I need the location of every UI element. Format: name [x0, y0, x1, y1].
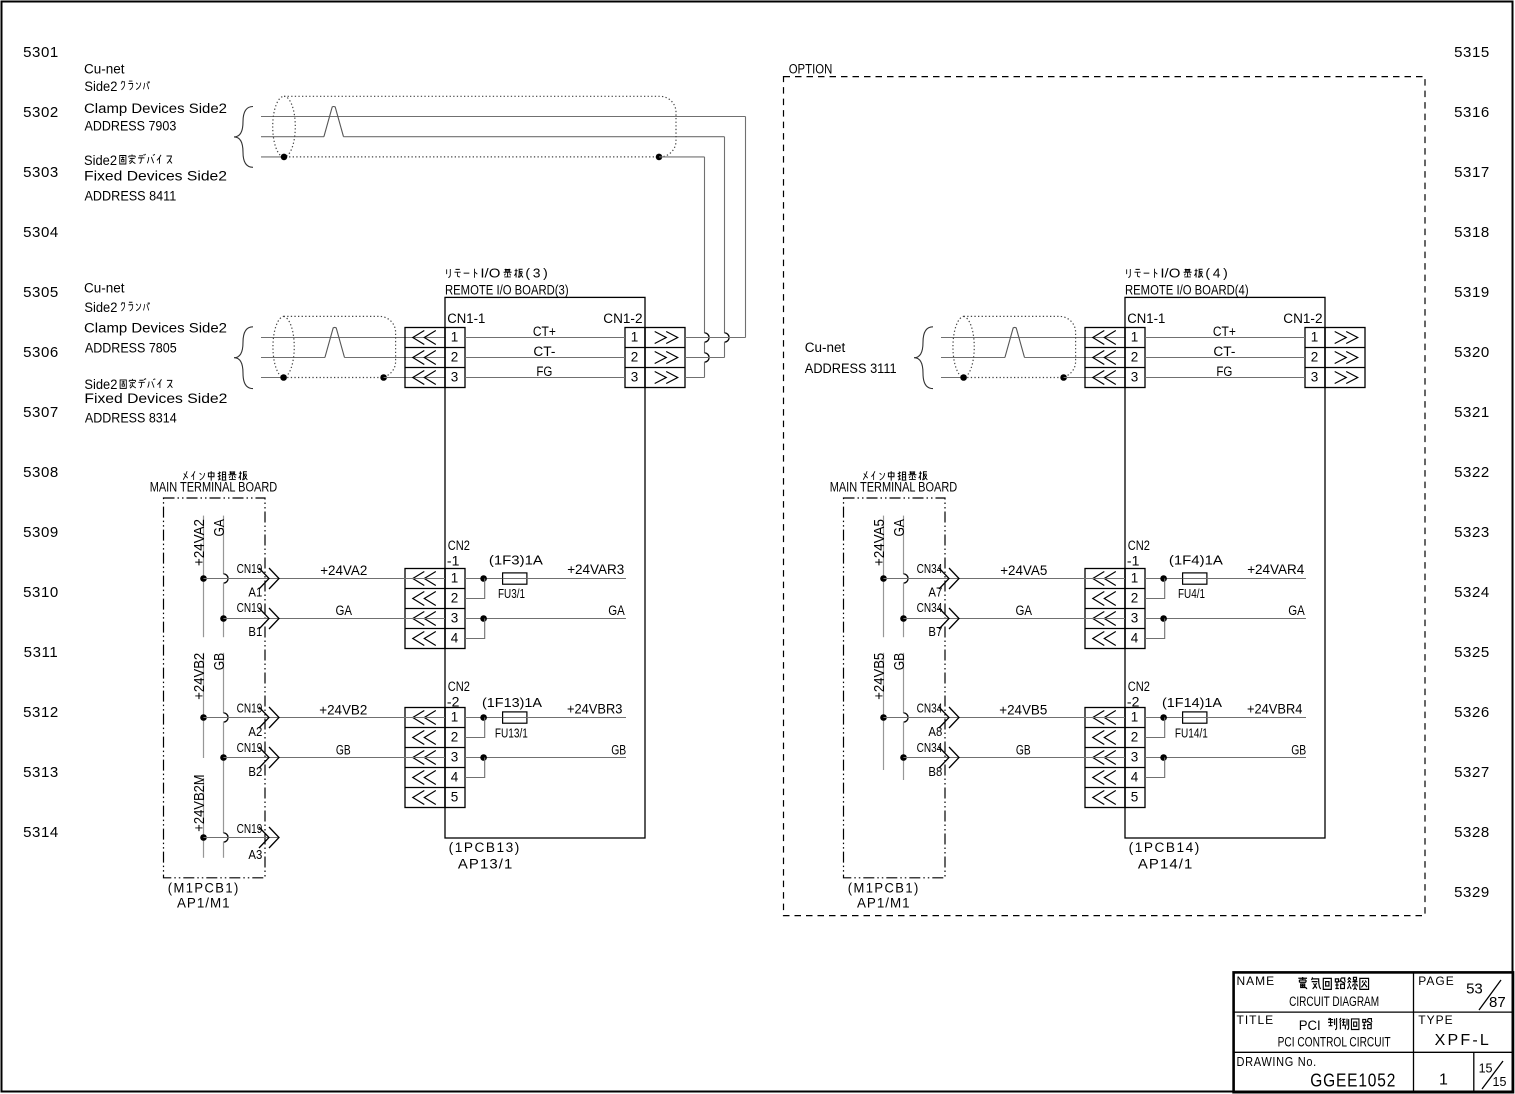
title block row divider 2: [1234, 1051, 1513, 1053]
fuse FU14/1: [1183, 712, 1207, 723]
svg-text:5324: 5324: [1454, 584, 1490, 601]
svg-text:PCI: PCI: [1299, 1018, 1321, 1033]
svg-text:GGEE1052: GGEE1052: [1310, 1071, 1396, 1091]
junction dot B7 on GA: [900, 615, 907, 622]
stub CN2-1 pin2 to pin1 junction (board 4): [1145, 579, 1165, 599]
connector pin box: [445, 569, 465, 649]
svg-text:5311: 5311: [24, 644, 59, 661]
svg-text:2: 2: [1131, 590, 1139, 605]
junction dot CN2-1 pin3 (board 4): [1160, 615, 1167, 622]
wire B1 GA to CN2-1: [224, 618, 446, 620]
svg-text:+24VB2: +24VB2: [319, 702, 367, 717]
svg-text:CN2: CN2: [448, 679, 470, 694]
svg-text:-1: -1: [1127, 553, 1140, 568]
bus GB (hops over A2 and A3 wires): [223, 653, 225, 713]
wire CT- cable 1 right segment: [343, 136, 724, 138]
svg-text:GA: GA: [891, 519, 908, 536]
junction dot cable 2 right: [380, 374, 387, 381]
connector pin box: [445, 708, 465, 808]
svg-text:4: 4: [451, 630, 459, 645]
bus GA right (hops over A7 wire): [903, 516, 905, 574]
chevron << row 5: [1093, 791, 1105, 805]
connector pin box: [1125, 328, 1145, 388]
wire through fuse FU3/1: [503, 578, 527, 580]
bus +24VB2: [203, 653, 205, 758]
board box REMOTE I/O BOARD(4): [1125, 297, 1325, 838]
wire +24VB5 pin1 to junction: [1145, 717, 1183, 719]
svg-text:Side2: Side2: [84, 79, 117, 94]
bus +24VA2: [203, 516, 205, 638]
svg-text:3: 3: [451, 610, 459, 625]
svg-text:15: 15: [1493, 1075, 1507, 1089]
svg-text:+24VAR3: +24VAR3: [567, 562, 624, 577]
wire CT- cable 1 left segment: [261, 136, 324, 138]
svg-text:2: 2: [451, 729, 459, 744]
sheet fraction slash: [1482, 1061, 1503, 1089]
svg-text:1: 1: [1439, 1072, 1448, 1089]
brace cable 2: [234, 327, 253, 389]
stub CN2-1 pin4 to pin3 junction: [465, 619, 485, 639]
svg-text:5323: 5323: [1454, 524, 1490, 541]
svg-text:5301: 5301: [23, 44, 59, 61]
svg-text:5315: 5315: [1454, 44, 1490, 61]
chevron << row 4: [413, 771, 425, 785]
connector arrow box: [405, 569, 445, 649]
label リモートI/O基板（3）: [447, 269, 451, 278]
svg-text:FU3/1: FU3/1: [498, 587, 525, 601]
title block bottom column divider: [1473, 1052, 1475, 1092]
wire FG cable 2 left stub: [261, 377, 284, 379]
chevron << row 2: [1093, 351, 1105, 365]
svg-text:87: 87: [1489, 994, 1506, 1011]
svg-text:+24VA5: +24VA5: [871, 519, 888, 566]
svg-text:(M1PCB1): (M1PCB1): [848, 881, 920, 896]
svg-text:5320: 5320: [1454, 344, 1490, 361]
wire A1 +24VA2 to CN2-1: [204, 578, 446, 580]
stub CN2-2 pin2 to pin1 junction: [465, 718, 485, 738]
svg-text:53: 53: [1466, 981, 1483, 998]
svg-text:Clamp Devices Side2: Clamp Devices Side2: [84, 101, 227, 116]
svg-text:I/O: I/O: [480, 266, 500, 281]
svg-text:Cu-net: Cu-net: [84, 62, 125, 77]
svg-text:5310: 5310: [23, 584, 59, 601]
svg-text:Clamp Devices Side2: Clamp Devices Side2: [84, 321, 227, 336]
svg-text:A2: A2: [248, 725, 262, 739]
wire CT+ inside board 3: [465, 337, 625, 339]
svg-text:CT+: CT+: [1213, 324, 1236, 339]
svg-text:MAIN TERMINAL BOARD: MAIN TERMINAL BOARD: [830, 480, 958, 495]
arrow CN19 A1: [259, 568, 269, 589]
svg-text:5327: 5327: [1454, 764, 1490, 781]
wire pin2 option cable right segment: [1024, 357, 1125, 359]
stub CN2-2 pin4 to pin3 junction: [465, 758, 485, 778]
svg-text:GA: GA: [336, 603, 353, 618]
connector arrow box: [405, 708, 445, 808]
svg-text:GB: GB: [611, 742, 626, 757]
svg-text:1: 1: [451, 709, 459, 724]
svg-text:2: 2: [451, 349, 459, 364]
chevron >> row 3: [1335, 372, 1347, 384]
label メイン中継基板 (right): [863, 471, 868, 480]
chevron << row 3: [1093, 371, 1105, 385]
svg-text:GB: GB: [891, 653, 908, 670]
svg-text:CN19: CN19: [237, 562, 263, 576]
svg-text:CN34: CN34: [917, 601, 943, 615]
chevron << row 2: [413, 351, 425, 365]
arrow CN34 A7: [939, 568, 949, 589]
cable shield outline: [273, 316, 396, 377]
svg-text:A8: A8: [928, 725, 942, 739]
svg-text:B1: B1: [248, 625, 262, 639]
wire B8 GB to CN2-2: [904, 757, 1126, 759]
wire drop FG to CN1-2 pin3 (hops over pin1 and pin2 wires): [704, 157, 706, 333]
svg-text:B7: B7: [928, 625, 942, 639]
wire +24VA5 pin1 to junction: [1145, 578, 1183, 580]
brace cable 1: [234, 107, 253, 168]
svg-text:+24VA2: +24VA2: [191, 519, 208, 566]
junction dot B1 on GA: [220, 615, 227, 622]
junction dot CN2-2 pin3: [480, 754, 487, 761]
svg-text:TITLE: TITLE: [1237, 1013, 1275, 1027]
svg-text:FG: FG: [1216, 364, 1232, 379]
svg-text:CIRCUIT DIAGRAM: CIRCUIT DIAGRAM: [1289, 994, 1379, 1009]
svg-text:(3): (3): [525, 266, 550, 281]
cable end ellipse inner arc: [284, 316, 295, 377]
brace option cable: [914, 327, 933, 389]
wire GA pin3 out (board 4): [1145, 618, 1306, 620]
svg-text:Side2: Side2: [84, 153, 117, 168]
chevron >> row 2: [655, 352, 667, 364]
junction dot A2 on +24VB2: [200, 714, 207, 721]
svg-text:CN2: CN2: [448, 538, 470, 553]
svg-text:FG: FG: [536, 364, 552, 379]
svg-text:5316: 5316: [1454, 104, 1490, 121]
junction dot A8 on +24VB5: [880, 714, 887, 721]
wire drop CT- to CN1-2 pin2 (hops over pin1 wire): [724, 137, 726, 333]
twisted pair crossover: [1005, 327, 1025, 357]
junction dot CN2-2 pin3 (board 4): [1160, 754, 1167, 761]
junction dot A3 on +24VB2M: [200, 834, 207, 841]
svg-text:(M1PCB1): (M1PCB1): [168, 881, 240, 896]
svg-text:1: 1: [1131, 329, 1139, 344]
wire FG cable 1 right segment: [659, 156, 705, 158]
junction dot B2 on GB: [220, 754, 227, 761]
junction dot option cable right: [1060, 374, 1067, 381]
svg-text:Fixed Devices Side2: Fixed Devices Side2: [84, 391, 227, 406]
svg-text:Fixed Devices Side2: Fixed Devices Side2: [84, 169, 227, 184]
wire through fuse FU13/1: [503, 717, 527, 719]
svg-text:5318: 5318: [1454, 224, 1490, 241]
svg-text:CN34: CN34: [917, 702, 943, 716]
chevron << row 1: [413, 331, 425, 345]
svg-text:FU13/1: FU13/1: [495, 726, 528, 740]
stub CN2-2 pin2 to pin1 junction (board 4): [1145, 718, 1165, 738]
connector pin box: [1125, 708, 1145, 808]
svg-text:+24VB5: +24VB5: [999, 702, 1047, 717]
svg-text:3: 3: [1131, 369, 1139, 384]
svg-text:5309: 5309: [23, 524, 59, 541]
wire FG inside board 3: [465, 377, 625, 379]
svg-text:CT-: CT-: [533, 344, 555, 359]
junction dot CN2-2 pin1 (board 4): [1160, 714, 1167, 721]
chevron << row 2: [1093, 731, 1105, 745]
svg-text:3: 3: [631, 369, 639, 384]
junction dot cable 1 right: [656, 154, 663, 161]
wire A7 +24VA5 to CN2-1: [884, 578, 1126, 580]
svg-text:TYPE: TYPE: [1418, 1013, 1453, 1027]
wire CT- inside board 3: [465, 357, 625, 359]
svg-text:ADDRESS 7903: ADDRESS 7903: [85, 118, 177, 133]
svg-text:B8: B8: [928, 765, 942, 779]
svg-text:5308: 5308: [23, 464, 59, 481]
wire CN1-2 pin3 out: [685, 377, 705, 379]
junction dot cable 2 left: [280, 374, 287, 381]
wire A2 +24VB2 to CN2-2: [204, 717, 446, 719]
stub CN2-1 pin2 to pin1 junction: [465, 579, 485, 599]
wire B7 GA to CN2-1: [904, 618, 1126, 620]
svg-text:(1F14)1A: (1F14)1A: [1162, 695, 1222, 710]
svg-text:Side2: Side2: [84, 300, 117, 315]
wire pin2 cable 2 right segment: [344, 357, 445, 359]
label リモートI/O基板（4）: [1127, 269, 1131, 278]
svg-text:B2: B2: [248, 765, 262, 779]
chevron << row 5: [413, 791, 425, 805]
svg-text:5: 5: [1131, 789, 1139, 804]
chevron << row 4: [413, 632, 425, 646]
OPTION dashed box: [784, 77, 1426, 916]
svg-text:PCI CONTROL CIRCUIT: PCI CONTROL CIRCUIT: [1278, 1035, 1391, 1050]
chevron << row 3: [1093, 751, 1105, 765]
cable end ellipse inner arc: [964, 316, 975, 377]
chevron << row 3: [413, 612, 425, 626]
svg-text:CN1-2: CN1-2: [603, 311, 642, 326]
svg-text:2: 2: [1131, 729, 1139, 744]
svg-text:2: 2: [451, 590, 459, 605]
svg-text:OPTION: OPTION: [789, 62, 833, 77]
svg-text:(1PCB13): (1PCB13): [449, 840, 521, 855]
svg-text:GB: GB: [1016, 742, 1031, 757]
svg-text:(1F3)1A: (1F3)1A: [489, 553, 543, 568]
chevron >> row 3: [655, 372, 667, 384]
bus +24VB5: [883, 653, 885, 770]
arrow CN19 A3: [259, 827, 269, 848]
svg-text:REMOTE I/O BOARD(3): REMOTE I/O BOARD(3): [445, 282, 569, 297]
svg-text:CN1-1: CN1-1: [447, 311, 485, 326]
junction dot CN2-1 pin1 (board 4): [1160, 575, 1167, 582]
svg-text:DRAWING No.: DRAWING No.: [1237, 1054, 1317, 1069]
wire A3 to CN19: [204, 837, 280, 839]
svg-text:5312: 5312: [23, 704, 59, 721]
svg-text:5: 5: [451, 789, 459, 804]
fuse FU13/1: [503, 712, 527, 723]
svg-text:CN2: CN2: [1128, 679, 1150, 694]
arrow CN34 B7: [939, 608, 949, 629]
chevron << row 2: [413, 592, 425, 606]
junction dot option cable left: [960, 374, 967, 381]
svg-text:1: 1: [631, 329, 639, 344]
svg-text:2: 2: [1311, 349, 1319, 364]
svg-text:GB: GB: [336, 742, 351, 757]
svg-text:5305: 5305: [23, 284, 59, 301]
svg-text:AP13/1: AP13/1: [458, 857, 514, 872]
arrow CN34 A8: [939, 707, 949, 728]
junction dot CN2-1 pin3: [480, 615, 487, 622]
svg-text:+24VB2: +24VB2: [191, 653, 208, 700]
svg-text:3: 3: [1311, 369, 1319, 384]
svg-text:1: 1: [451, 329, 459, 344]
svg-text:CN19: CN19: [237, 702, 263, 716]
bus +24VB2M: [203, 778, 205, 858]
wire GB pin3 out: [465, 757, 626, 759]
svg-text:CN19: CN19: [237, 601, 263, 615]
svg-text:FU14/1: FU14/1: [1175, 726, 1208, 740]
fuse FU4/1: [1183, 573, 1207, 584]
wire FG option cable to CN1-1: [1064, 377, 1125, 379]
terminal board dash-dot border (left): [164, 498, 266, 878]
cable shield outline: [273, 96, 676, 157]
svg-text:4: 4: [451, 769, 459, 784]
connector pin box: [1125, 569, 1145, 649]
arrow CN19 B2: [259, 747, 269, 768]
wire fuse to +24VAR3: [527, 578, 626, 580]
wire FG cable 1 left stub: [261, 156, 284, 158]
chevron << row 4: [1093, 632, 1105, 646]
svg-text:5328: 5328: [1454, 824, 1490, 841]
svg-text:5322: 5322: [1454, 464, 1490, 481]
board box REMOTE I/O BOARD(3): [445, 297, 645, 838]
svg-text:5302: 5302: [23, 104, 59, 121]
svg-text:+24VAR4: +24VAR4: [1247, 562, 1305, 577]
label メイン中継基板 (left): [183, 471, 188, 480]
bus GA (hops over A1 wire): [223, 516, 225, 574]
chevron << row 3: [1093, 612, 1105, 626]
svg-text:GA: GA: [608, 603, 625, 618]
svg-text:4: 4: [1131, 769, 1139, 784]
connector arrow box: [405, 328, 445, 388]
svg-text:3: 3: [451, 749, 459, 764]
svg-text:AP1/M1: AP1/M1: [857, 896, 911, 911]
arrow CN19 B1: [259, 608, 269, 629]
wire CN1-2 pin1 out: [685, 337, 746, 339]
wire GA pin3 out: [465, 618, 626, 620]
wire +24VA2 pin1 to junction: [465, 578, 503, 580]
cable shield outline: [953, 316, 1076, 377]
svg-text:5313: 5313: [23, 764, 59, 781]
arrow CN34 B8: [939, 747, 949, 768]
svg-text:ADDRESS 3111: ADDRESS 3111: [805, 361, 897, 376]
svg-text:5319: 5319: [1454, 284, 1490, 301]
title block column divider: [1413, 972, 1415, 1092]
svg-text:NAME: NAME: [1237, 974, 1276, 988]
svg-text:CN2: CN2: [1128, 538, 1150, 553]
bus +24VA5: [883, 516, 885, 638]
page fraction slash: [1479, 980, 1501, 1010]
wire CT+ cable 1: [261, 116, 746, 118]
svg-text:I/O: I/O: [1160, 266, 1180, 281]
svg-text:3: 3: [1131, 610, 1139, 625]
terminal board dash-dot border (right): [844, 498, 946, 878]
svg-text:5307: 5307: [23, 404, 59, 421]
svg-text:5304: 5304: [23, 224, 59, 241]
junction dot CN2-2 pin1: [480, 714, 487, 721]
svg-text:5325: 5325: [1454, 644, 1490, 661]
chevron << row 2: [413, 731, 425, 745]
svg-text:ADDRESS 7805: ADDRESS 7805: [85, 340, 177, 355]
twisted pair crossover: [325, 327, 345, 357]
wire pin1 cable 2 to CN1-1: [261, 337, 445, 339]
svg-text:+24VB5: +24VB5: [871, 653, 888, 700]
svg-text:5326: 5326: [1454, 704, 1490, 721]
svg-text:GA: GA: [1016, 603, 1033, 618]
svg-text:5314: 5314: [23, 824, 59, 841]
svg-text:5306: 5306: [23, 344, 59, 361]
svg-text:XPF-L: XPF-L: [1435, 1032, 1491, 1049]
title block outer box: [1234, 972, 1513, 1092]
svg-text:Cu-net: Cu-net: [805, 340, 846, 355]
svg-text:1: 1: [1311, 329, 1319, 344]
chevron << row 1: [1093, 331, 1105, 345]
svg-text:GB: GB: [211, 653, 228, 670]
svg-text:1: 1: [1131, 570, 1139, 585]
svg-text:5303: 5303: [23, 164, 59, 181]
chevron << row 2: [1093, 592, 1105, 606]
chevron >> row 1: [1335, 332, 1347, 344]
svg-text:CN19: CN19: [237, 741, 263, 755]
svg-text:CT-: CT-: [1213, 344, 1235, 359]
twisted pair crossover: [324, 107, 344, 137]
svg-text:(1F4)1A: (1F4)1A: [1169, 553, 1223, 568]
svg-text:CN1-2: CN1-2: [1283, 311, 1322, 326]
svg-text:AP1/M1: AP1/M1: [177, 896, 231, 911]
svg-text:3: 3: [451, 369, 459, 384]
connector arrow box: [1085, 569, 1125, 649]
connector pin box: [625, 328, 645, 388]
svg-text:3: 3: [1131, 749, 1139, 764]
svg-text:+24VBR3: +24VBR3: [567, 702, 622, 717]
svg-text:A7: A7: [928, 586, 942, 600]
svg-text:FU4/1: FU4/1: [1178, 587, 1205, 601]
svg-text:1: 1: [1131, 709, 1139, 724]
wire drop CT+ to CN1-2 pin1: [745, 117, 747, 338]
svg-text:ADDRESS 8314: ADDRESS 8314: [85, 411, 177, 426]
svg-text:Side2: Side2: [84, 377, 117, 392]
svg-text:5317: 5317: [1454, 164, 1490, 181]
wire GB pin3 out (board 4): [1145, 757, 1306, 759]
svg-text:GA: GA: [1288, 603, 1305, 618]
svg-text:(1PCB14): (1PCB14): [1129, 840, 1201, 855]
svg-text:MAIN TERMINAL BOARD: MAIN TERMINAL BOARD: [150, 480, 278, 495]
svg-text:GB: GB: [1291, 742, 1306, 757]
wire CN1-2 pin2 out: [685, 357, 725, 359]
chevron << row 1: [1093, 711, 1105, 725]
wire pin2 cable 2 left segment: [261, 357, 325, 359]
svg-text:A3: A3: [248, 848, 262, 862]
wire CT- inside board 4: [1145, 357, 1305, 359]
svg-text:5321: 5321: [1454, 404, 1490, 421]
connector pin box: [445, 328, 465, 388]
stub CN2-2 pin4 to pin3 junction (board 4): [1145, 758, 1165, 778]
wire fuse to +24VBR4: [1207, 717, 1306, 719]
chevron >> row 1: [655, 332, 667, 344]
chevron << row 3: [413, 371, 425, 385]
connector arrow box: [1325, 328, 1365, 388]
connector arrow box: [645, 328, 685, 388]
wire A8 +24VB5 to CN2-2: [884, 717, 1126, 719]
chevron << row 1: [413, 711, 425, 725]
svg-text:4: 4: [1131, 630, 1139, 645]
wire pin1 option cable to CN1-1: [941, 337, 1125, 339]
svg-text:(1F13)1A: (1F13)1A: [482, 695, 542, 710]
